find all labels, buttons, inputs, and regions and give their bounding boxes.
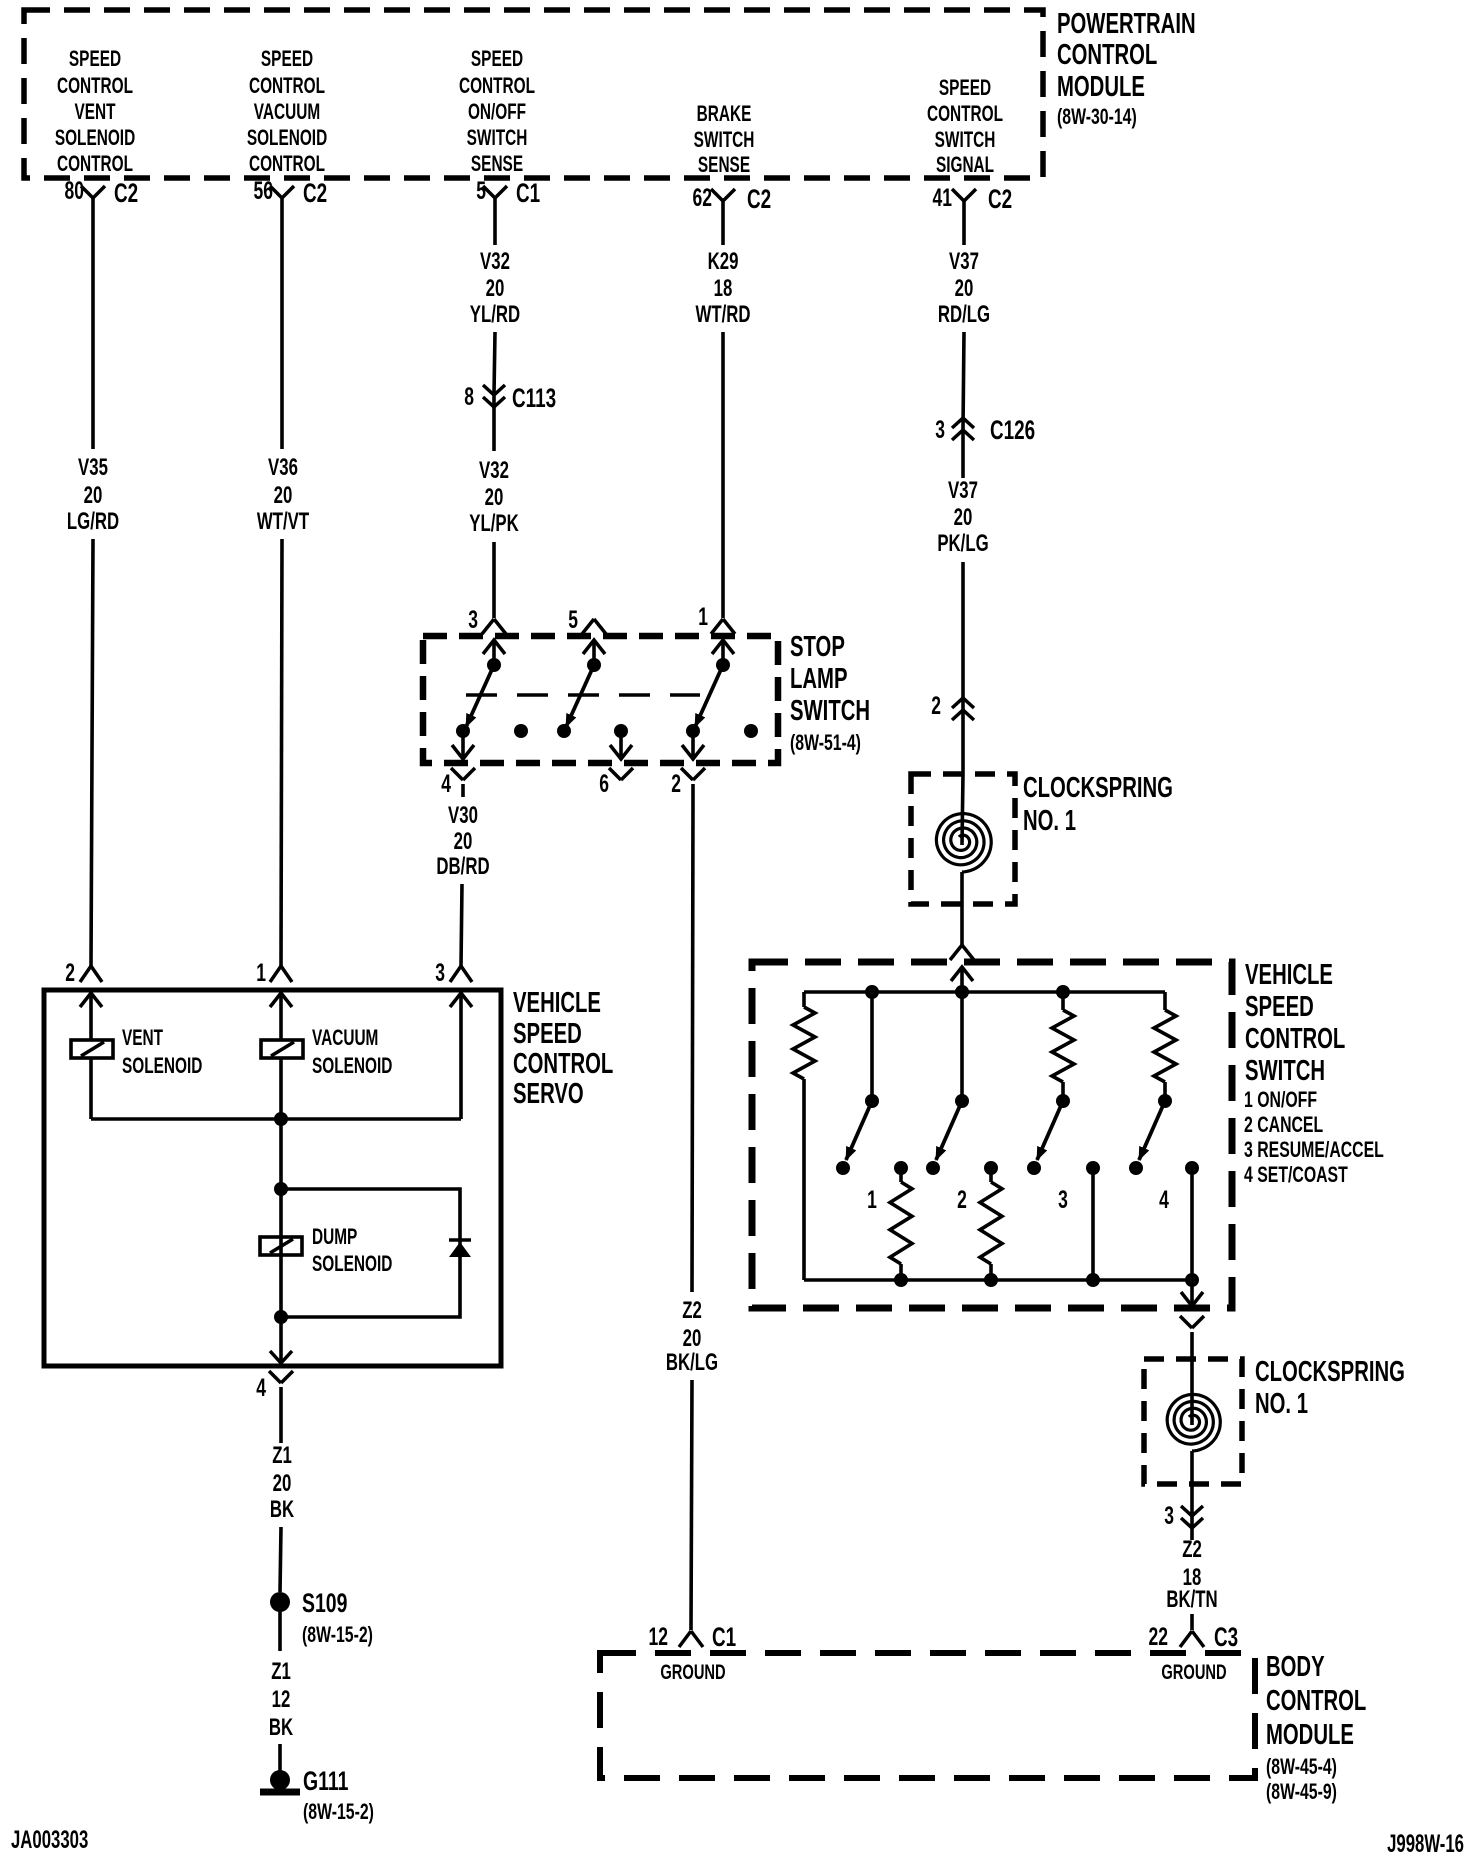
clockspring no.1 upper dashed box — [911, 774, 1015, 904]
wire below S109 — [278, 1612, 282, 1651]
svg-text:POWERTRAIN: POWERTRAIN — [1057, 8, 1196, 40]
svg-text:V30: V30 — [448, 802, 478, 829]
svg-text:PK/LG: PK/LG — [937, 530, 988, 557]
svg-text:SPEED: SPEED — [261, 47, 313, 71]
svg-text:20: 20 — [84, 482, 103, 509]
svg-text:C1: C1 — [516, 178, 540, 208]
sw1 arm contact — [836, 1161, 850, 1175]
svg-text:3: 3 — [935, 415, 945, 444]
servo title VEHICLE SPEED CONTROL SERVO — [513, 987, 613, 1110]
svg-text:V32: V32 — [479, 457, 509, 484]
dump solenoid L3 — [260, 1237, 302, 1255]
vacuum solenoid L2 — [261, 1040, 303, 1058]
clockspring upper title — [1023, 772, 1173, 837]
top bus junction entry — [955, 985, 969, 999]
wire label Z1 20 BK — [270, 1442, 294, 1523]
stop lamp pin 1 entry fork — [698, 602, 735, 634]
pin 1 pivot junction — [716, 658, 730, 672]
splice S109 label — [302, 1588, 373, 1648]
dump loop wires — [281, 1189, 460, 1317]
svg-text:5: 5 — [476, 176, 486, 205]
svg-text:80: 80 — [65, 176, 84, 205]
contact 3 wire — [1091, 1168, 1095, 1280]
svg-text:4 SET/COAST: 4 SET/COAST — [1244, 1164, 1348, 1188]
svg-text:SPEED: SPEED — [513, 1018, 582, 1050]
wire V30 lower segment — [461, 884, 462, 966]
svg-text:Z1: Z1 — [272, 1442, 292, 1469]
ground G111 label — [303, 1766, 374, 1825]
wire V37 below C126 — [961, 431, 965, 478]
wire V32 lower segment — [492, 542, 496, 618]
bus junction at vacuum branch — [274, 1112, 288, 1126]
connector C126 pin 3 — [935, 415, 1035, 445]
svg-text:20: 20 — [955, 275, 974, 302]
svg-text:(8W-15-2): (8W-15-2) — [303, 1801, 374, 1825]
svg-text:Z2: Z2 — [1182, 1536, 1202, 1563]
sw2 pivot — [955, 1094, 969, 1108]
svg-text:CONTROL: CONTROL — [57, 74, 133, 98]
sw4 pivot — [1158, 1094, 1172, 1108]
wire Z1 lower segment — [278, 1744, 282, 1772]
contact 4 — [1185, 1161, 1199, 1175]
wire Z2 BK/LG lower segment — [691, 1380, 692, 1630]
svg-text:SPEED: SPEED — [471, 47, 523, 71]
pin 2 exit fork — [671, 768, 705, 798]
svg-text:YL/PK: YL/PK — [469, 510, 518, 537]
svg-text:1: 1 — [698, 602, 708, 631]
dump loop bottom junction — [274, 1310, 288, 1324]
svg-text:BK: BK — [270, 1496, 294, 1523]
svg-text:SOLENOID: SOLENOID — [55, 126, 135, 150]
svg-text:(8W-51-4): (8W-51-4) — [790, 732, 861, 756]
svg-text:C113: C113 — [512, 383, 556, 413]
svg-text:Z1: Z1 — [271, 1658, 291, 1685]
svg-text:SENSE: SENSE — [698, 153, 750, 177]
svg-text:4: 4 — [441, 769, 451, 798]
svg-text:2: 2 — [931, 691, 941, 720]
pin 5 pivot junction — [587, 658, 601, 672]
servo pin 3 arrow into box — [450, 993, 472, 1007]
dump solenoid label — [312, 1225, 392, 1276]
svg-text:GROUND: GROUND — [660, 1660, 725, 1683]
svg-text:18: 18 — [714, 275, 733, 302]
wire out of lower clockspring — [1190, 1451, 1194, 1540]
PCM title POWERTRAIN CONTROL MODULE (8W-30-14) — [1057, 8, 1196, 130]
svg-text:(8W-30-14): (8W-30-14) — [1057, 106, 1137, 130]
connector C2 pin 41 — [933, 183, 1013, 214]
sw3 arm — [1037, 1101, 1063, 1160]
wire through dump solenoid — [279, 1189, 283, 1317]
svg-text:S109: S109 — [302, 1588, 347, 1618]
wire K29 lower segment — [721, 332, 725, 618]
servo pin 2 entry fork — [65, 958, 102, 987]
connector C3 pin 22 — [1149, 1622, 1239, 1652]
wire V32 stub — [493, 198, 497, 245]
svg-text:4: 4 — [1159, 1185, 1169, 1214]
mechanical link dashed line — [466, 693, 700, 696]
svg-text:C126: C126 — [990, 415, 1035, 445]
svg-text:K29: K29 — [708, 248, 739, 275]
svg-text:SERVO: SERVO — [513, 1078, 584, 1110]
svg-text:20: 20 — [954, 504, 973, 531]
bottom bus junction 2 — [984, 1273, 998, 1287]
switch arm pole 5 — [566, 665, 594, 727]
servo pin 2 arrow into box — [80, 993, 102, 1007]
svg-text:SWITCH: SWITCH — [467, 126, 528, 150]
pin 4 exit fork — [441, 768, 475, 798]
svg-text:1 ON/OFF: 1 ON/OFF — [1244, 1089, 1317, 1113]
sw2 wire — [960, 992, 964, 1101]
pin 6 contact — [614, 724, 628, 738]
svg-text:3: 3 — [1164, 1501, 1174, 1530]
svg-text:V32: V32 — [480, 248, 510, 275]
svg-text:5: 5 — [568, 605, 578, 634]
pole 1-2 lower contact — [686, 724, 700, 738]
svg-text:8: 8 — [464, 382, 474, 411]
stop lamp pin 3 entry fork — [468, 605, 506, 634]
BCM title BODY CONTROL MODULE — [1266, 1651, 1366, 1805]
stop lamp switch S1 dashed box — [423, 636, 778, 763]
stop lamp switch title STOP LAMP SWITCH (8W-51-4) — [790, 631, 870, 756]
contact 1 — [894, 1161, 908, 1175]
wire V32 below C113 — [492, 396, 496, 451]
connector C2 pin 80 — [65, 176, 139, 208]
wire label Z2 20 BK/LG — [666, 1297, 718, 1376]
svg-text:(8W-15-2): (8W-15-2) — [302, 1624, 373, 1648]
sw3 pivot — [1056, 1094, 1070, 1108]
VSCS bottom bus wire — [804, 1278, 1192, 1282]
wire V37 stub — [962, 201, 966, 245]
connector C1 pin 5 — [476, 176, 540, 208]
svg-text:56: 56 — [254, 176, 273, 205]
vehicle speed control switch dashed box — [752, 962, 1232, 1308]
connector C1 pin 12 — [649, 1622, 737, 1652]
sw4 resistor R3 — [1163, 992, 1167, 1010]
svg-text:BODY: BODY — [1266, 1651, 1325, 1683]
svg-text:LG/RD: LG/RD — [67, 508, 119, 535]
pole 3-4 lower contact — [456, 724, 470, 738]
svg-text:SOLENOID: SOLENOID — [312, 1054, 392, 1078]
sw1 wire — [870, 992, 874, 1101]
wire label V32 20 YL/RD — [470, 248, 520, 328]
sw1 pivot — [865, 1094, 879, 1108]
svg-text:20: 20 — [485, 484, 504, 511]
clockspring upper coil — [936, 814, 991, 872]
connector pin 3 lower clockspring — [1164, 1501, 1203, 1530]
svg-text:CLOCKSPRING: CLOCKSPRING — [1255, 1356, 1405, 1388]
diode D1 — [449, 1238, 471, 1242]
svg-text:41: 41 — [933, 183, 952, 212]
servo internal bus wire — [91, 1117, 461, 1121]
svg-text:BK/TN: BK/TN — [1166, 1586, 1217, 1613]
powertrain control module U1 dashed box — [24, 10, 1043, 178]
stop lamp pin 5 entry fork — [568, 605, 606, 634]
contact 1 resistor R4 — [899, 1168, 903, 1182]
svg-text:3: 3 — [435, 958, 445, 987]
svg-text:2: 2 — [65, 958, 75, 987]
VSCS title VEHICLE SPEED CONTROL SWITCH — [1245, 959, 1345, 1087]
left rail resistor R1 — [802, 992, 806, 1007]
wire label Z2 18 BK/TN — [1166, 1536, 1217, 1613]
svg-text:C3: C3 — [1214, 1622, 1238, 1652]
label: brake switch sense — [694, 102, 755, 177]
body control module dashed box — [600, 1653, 1255, 1778]
sw3 resistor R2 — [1061, 992, 1065, 1010]
svg-text:V35: V35 — [78, 454, 108, 481]
sw4 arm contact — [1129, 1161, 1143, 1175]
svg-text:SWITCH: SWITCH — [694, 128, 755, 152]
pin 3 arrow into box — [483, 640, 505, 654]
svg-text:(8W-45-4): (8W-45-4) — [1266, 1756, 1337, 1780]
svg-text:3: 3 — [1058, 1185, 1068, 1214]
wire label K29 18 WT/RD — [695, 248, 750, 328]
switch arm pole 3-4 — [466, 665, 494, 727]
label: speed control vent solenoid control — [55, 47, 135, 176]
bottom bus junction 4 — [1185, 1273, 1199, 1287]
fork into speed control switch box — [950, 945, 974, 960]
svg-text:CONTROL: CONTROL — [1057, 39, 1157, 71]
svg-text:1: 1 — [867, 1185, 877, 1214]
svg-text:20: 20 — [274, 482, 293, 509]
VSCS exit wire and arrow — [1190, 1280, 1194, 1306]
svg-text:V36: V36 — [268, 454, 298, 481]
svg-text:C1: C1 — [712, 1622, 736, 1652]
svg-text:VEHICLE: VEHICLE — [1245, 959, 1333, 991]
sw3 arm contact — [1027, 1161, 1041, 1175]
svg-text:20: 20 — [683, 1325, 702, 1352]
wire V37 lower segment — [961, 562, 965, 774]
svg-text:SWITCH: SWITCH — [790, 695, 870, 727]
svg-text:C2: C2 — [988, 184, 1012, 214]
spare contact a — [514, 724, 528, 738]
pin 1 arrow into box — [712, 640, 734, 654]
svg-text:JA003303: JA003303 — [11, 1826, 88, 1854]
wire below vacuum solenoid — [279, 1058, 283, 1190]
pole 5 lower contact — [557, 724, 571, 738]
servo pin 4 exit fork — [256, 1371, 293, 1402]
svg-text:2: 2 — [957, 1185, 967, 1214]
wire label V30 20 DB/RD — [436, 802, 489, 880]
svg-text:BK: BK — [269, 1714, 293, 1741]
svg-text:62: 62 — [693, 183, 712, 212]
svg-text:V37: V37 — [948, 477, 978, 504]
svg-text:YL/RD: YL/RD — [470, 301, 520, 328]
svg-text:DB/RD: DB/RD — [436, 853, 489, 880]
clockspring no.1 lower dashed box — [1144, 1359, 1242, 1484]
bottom bus junction 3 — [1086, 1273, 1100, 1287]
label: speed control on/off switch sense — [459, 47, 535, 176]
sw1 arm — [846, 1101, 872, 1160]
svg-text:20: 20 — [454, 828, 473, 855]
connector C2 pin 56 — [254, 176, 328, 208]
label: speed control switch signal — [927, 76, 1003, 177]
svg-text:2: 2 — [671, 769, 681, 798]
pin 3 pivot junction — [487, 658, 501, 672]
svg-text:NO. 1: NO. 1 — [1255, 1388, 1308, 1420]
connector C2 pin 62 — [693, 183, 772, 214]
pin 5 arrow into box — [583, 640, 605, 654]
contact 2 resistor R5 — [989, 1168, 993, 1182]
vacuum solenoid label — [312, 1026, 392, 1078]
switch position labels 1 2 3 4 — [867, 1185, 1169, 1214]
svg-text:CONTROL: CONTROL — [249, 152, 325, 176]
svg-text:STOP: STOP — [790, 631, 845, 663]
svg-text:SOLENOID: SOLENOID — [312, 1252, 392, 1276]
svg-text:CONTROL: CONTROL — [1266, 1685, 1366, 1717]
wire label V36 20 WT/VT — [257, 454, 310, 535]
inline connector pin 2 (steering column) — [931, 691, 974, 720]
svg-text:3: 3 — [468, 605, 478, 634]
svg-text:1: 1 — [256, 958, 266, 987]
svg-text:CONTROL: CONTROL — [57, 152, 133, 176]
arrow into speed control switch box — [951, 967, 973, 981]
svg-text:G111: G111 — [303, 1766, 348, 1796]
contact 2 — [984, 1161, 998, 1175]
wire V32 mid segment — [494, 332, 495, 394]
svg-text:CONTROL: CONTROL — [459, 74, 535, 98]
sw4 arm — [1139, 1101, 1165, 1160]
svg-text:3 RESUME/ACCEL: 3 RESUME/ACCEL — [1244, 1139, 1384, 1163]
svg-text:WT/RD: WT/RD — [695, 301, 750, 328]
svg-text:BRAKE: BRAKE — [697, 102, 752, 126]
svg-text:MODULE: MODULE — [1057, 71, 1145, 103]
svg-text:WT/VT: WT/VT — [257, 508, 310, 535]
svg-text:SPEED: SPEED — [69, 47, 121, 71]
contact 4 wire — [1190, 1168, 1194, 1280]
dump loop top junction — [274, 1182, 288, 1196]
svg-text:SPEED: SPEED — [939, 76, 991, 100]
wire label V32 20 YL/PK — [469, 457, 518, 537]
wire V37 mid segment — [963, 332, 964, 429]
top bus junction sw3 — [1056, 985, 1070, 999]
wire label Z1 12 BK — [269, 1658, 293, 1741]
svg-text:12: 12 — [272, 1686, 291, 1713]
contact 3 — [1086, 1161, 1100, 1175]
label: speed control vacuum solenoid control — [247, 47, 327, 176]
svg-text:VEHICLE: VEHICLE — [513, 987, 601, 1019]
svg-text:2 CANCEL: 2 CANCEL — [1244, 1114, 1323, 1138]
wire V36 upper segment — [280, 198, 284, 449]
svg-text:V37: V37 — [949, 248, 979, 275]
switch arm pole 1-2 — [695, 665, 723, 727]
svg-text:CONTROL: CONTROL — [249, 74, 325, 98]
vent solenoid label — [122, 1026, 202, 1078]
svg-text:20: 20 — [486, 275, 505, 302]
svg-text:CONTROL: CONTROL — [1245, 1023, 1345, 1055]
wire label V37 20 PK/LG — [937, 477, 988, 557]
svg-text:SOLENOID: SOLENOID — [122, 1054, 202, 1078]
wire K29 stub — [721, 201, 725, 245]
spare contact b — [744, 724, 758, 738]
svg-text:VENT: VENT — [74, 100, 115, 124]
sw2 arm — [936, 1101, 962, 1160]
wire label V37 20 RD/LG — [938, 248, 990, 328]
svg-text:VACUUM: VACUUM — [312, 1026, 378, 1050]
top bus junction sw1 — [865, 985, 879, 999]
svg-text:CONTROL: CONTROL — [927, 102, 1003, 126]
pin 6 exit wire and arrow — [619, 731, 623, 759]
sw2 arm contact — [926, 1161, 940, 1175]
VSCS exit fork — [1180, 1316, 1204, 1328]
svg-text:4: 4 — [256, 1373, 266, 1402]
svg-text:BK/LG: BK/LG — [666, 1349, 718, 1376]
wire out of clockspring — [960, 872, 964, 945]
svg-text:DUMP: DUMP — [312, 1225, 357, 1249]
svg-text:GROUND: GROUND — [1161, 1660, 1226, 1683]
wire V35 upper segment — [91, 198, 95, 449]
svg-text:SENSE: SENSE — [471, 152, 523, 176]
connector C113 pin 8 — [464, 382, 556, 413]
left rail wire — [802, 1079, 806, 1280]
servo pin 1 arrow into box — [270, 993, 292, 1007]
svg-text:CONTROL: CONTROL — [513, 1048, 613, 1080]
pin 2 exit wire and arrow — [691, 731, 695, 759]
svg-text:6: 6 — [599, 769, 609, 798]
wire Z1 mid segment — [280, 1527, 281, 1592]
clockspring lower title — [1255, 1356, 1405, 1420]
svg-text:J998W-16: J998W-16 — [1387, 1830, 1464, 1858]
svg-text:VACUUM: VACUUM — [254, 100, 320, 124]
svg-text:VENT: VENT — [122, 1026, 163, 1050]
ground G111 — [270, 1770, 290, 1790]
servo pin 3 entry fork — [435, 958, 472, 987]
svg-text:SPEED: SPEED — [1245, 991, 1314, 1023]
vent solenoid L1 — [71, 1040, 113, 1058]
svg-text:ON/OFF: ON/OFF — [468, 100, 526, 124]
wire label V35 20 LG/RD — [67, 454, 119, 535]
svg-text:(8W-45-9): (8W-45-9) — [1266, 1781, 1337, 1805]
svg-text:Z2: Z2 — [682, 1297, 702, 1324]
wire into lower clockspring — [1190, 1359, 1194, 1425]
svg-text:C2: C2 — [303, 178, 327, 208]
svg-text:SWITCH: SWITCH — [1245, 1055, 1325, 1087]
svg-text:MODULE: MODULE — [1266, 1719, 1354, 1751]
vehicle speed control servo box — [44, 990, 501, 1366]
svg-text:20: 20 — [273, 1470, 292, 1497]
wire into clockspring coil — [962, 774, 963, 845]
svg-text:NO. 1: NO. 1 — [1023, 805, 1076, 837]
clockspring lower coil — [1167, 1395, 1220, 1452]
svg-text:CLOCKSPRING: CLOCKSPRING — [1023, 772, 1173, 804]
wire V35 lower segment — [91, 539, 93, 966]
wire V36 lower segment — [281, 539, 282, 966]
servo pin 1 entry fork — [256, 958, 292, 987]
svg-text:SIGNAL: SIGNAL — [936, 153, 994, 177]
wire Z1 upper segment — [279, 1400, 283, 1443]
sw4 wire — [1163, 1082, 1167, 1101]
svg-text:LAMP: LAMP — [790, 663, 847, 695]
pin 6 exit fork — [599, 768, 633, 798]
sw3 wire — [1061, 1082, 1065, 1101]
wire Z2 BK/TN lower stub — [1190, 1614, 1194, 1630]
svg-text:22: 22 — [1149, 1622, 1168, 1651]
svg-text:RD/LG: RD/LG — [938, 301, 990, 328]
pin 4 exit wire and arrow — [461, 731, 465, 759]
VSCS top bus wire — [804, 990, 1165, 994]
bottom bus junction 1 — [894, 1273, 908, 1287]
svg-text:C2: C2 — [114, 178, 138, 208]
svg-text:SOLENOID: SOLENOID — [247, 126, 327, 150]
svg-text:C2: C2 — [747, 184, 771, 214]
wire Z2 BK/LG long segment — [692, 797, 693, 1292]
wire below vent solenoid — [89, 1058, 93, 1119]
svg-text:SWITCH: SWITCH — [935, 128, 996, 152]
servo pin 4 exit wire and arrow — [279, 1317, 283, 1363]
splice S109 — [270, 1592, 290, 1612]
VSCS legend 1-4 — [1244, 1089, 1384, 1188]
svg-text:12: 12 — [649, 1622, 668, 1651]
